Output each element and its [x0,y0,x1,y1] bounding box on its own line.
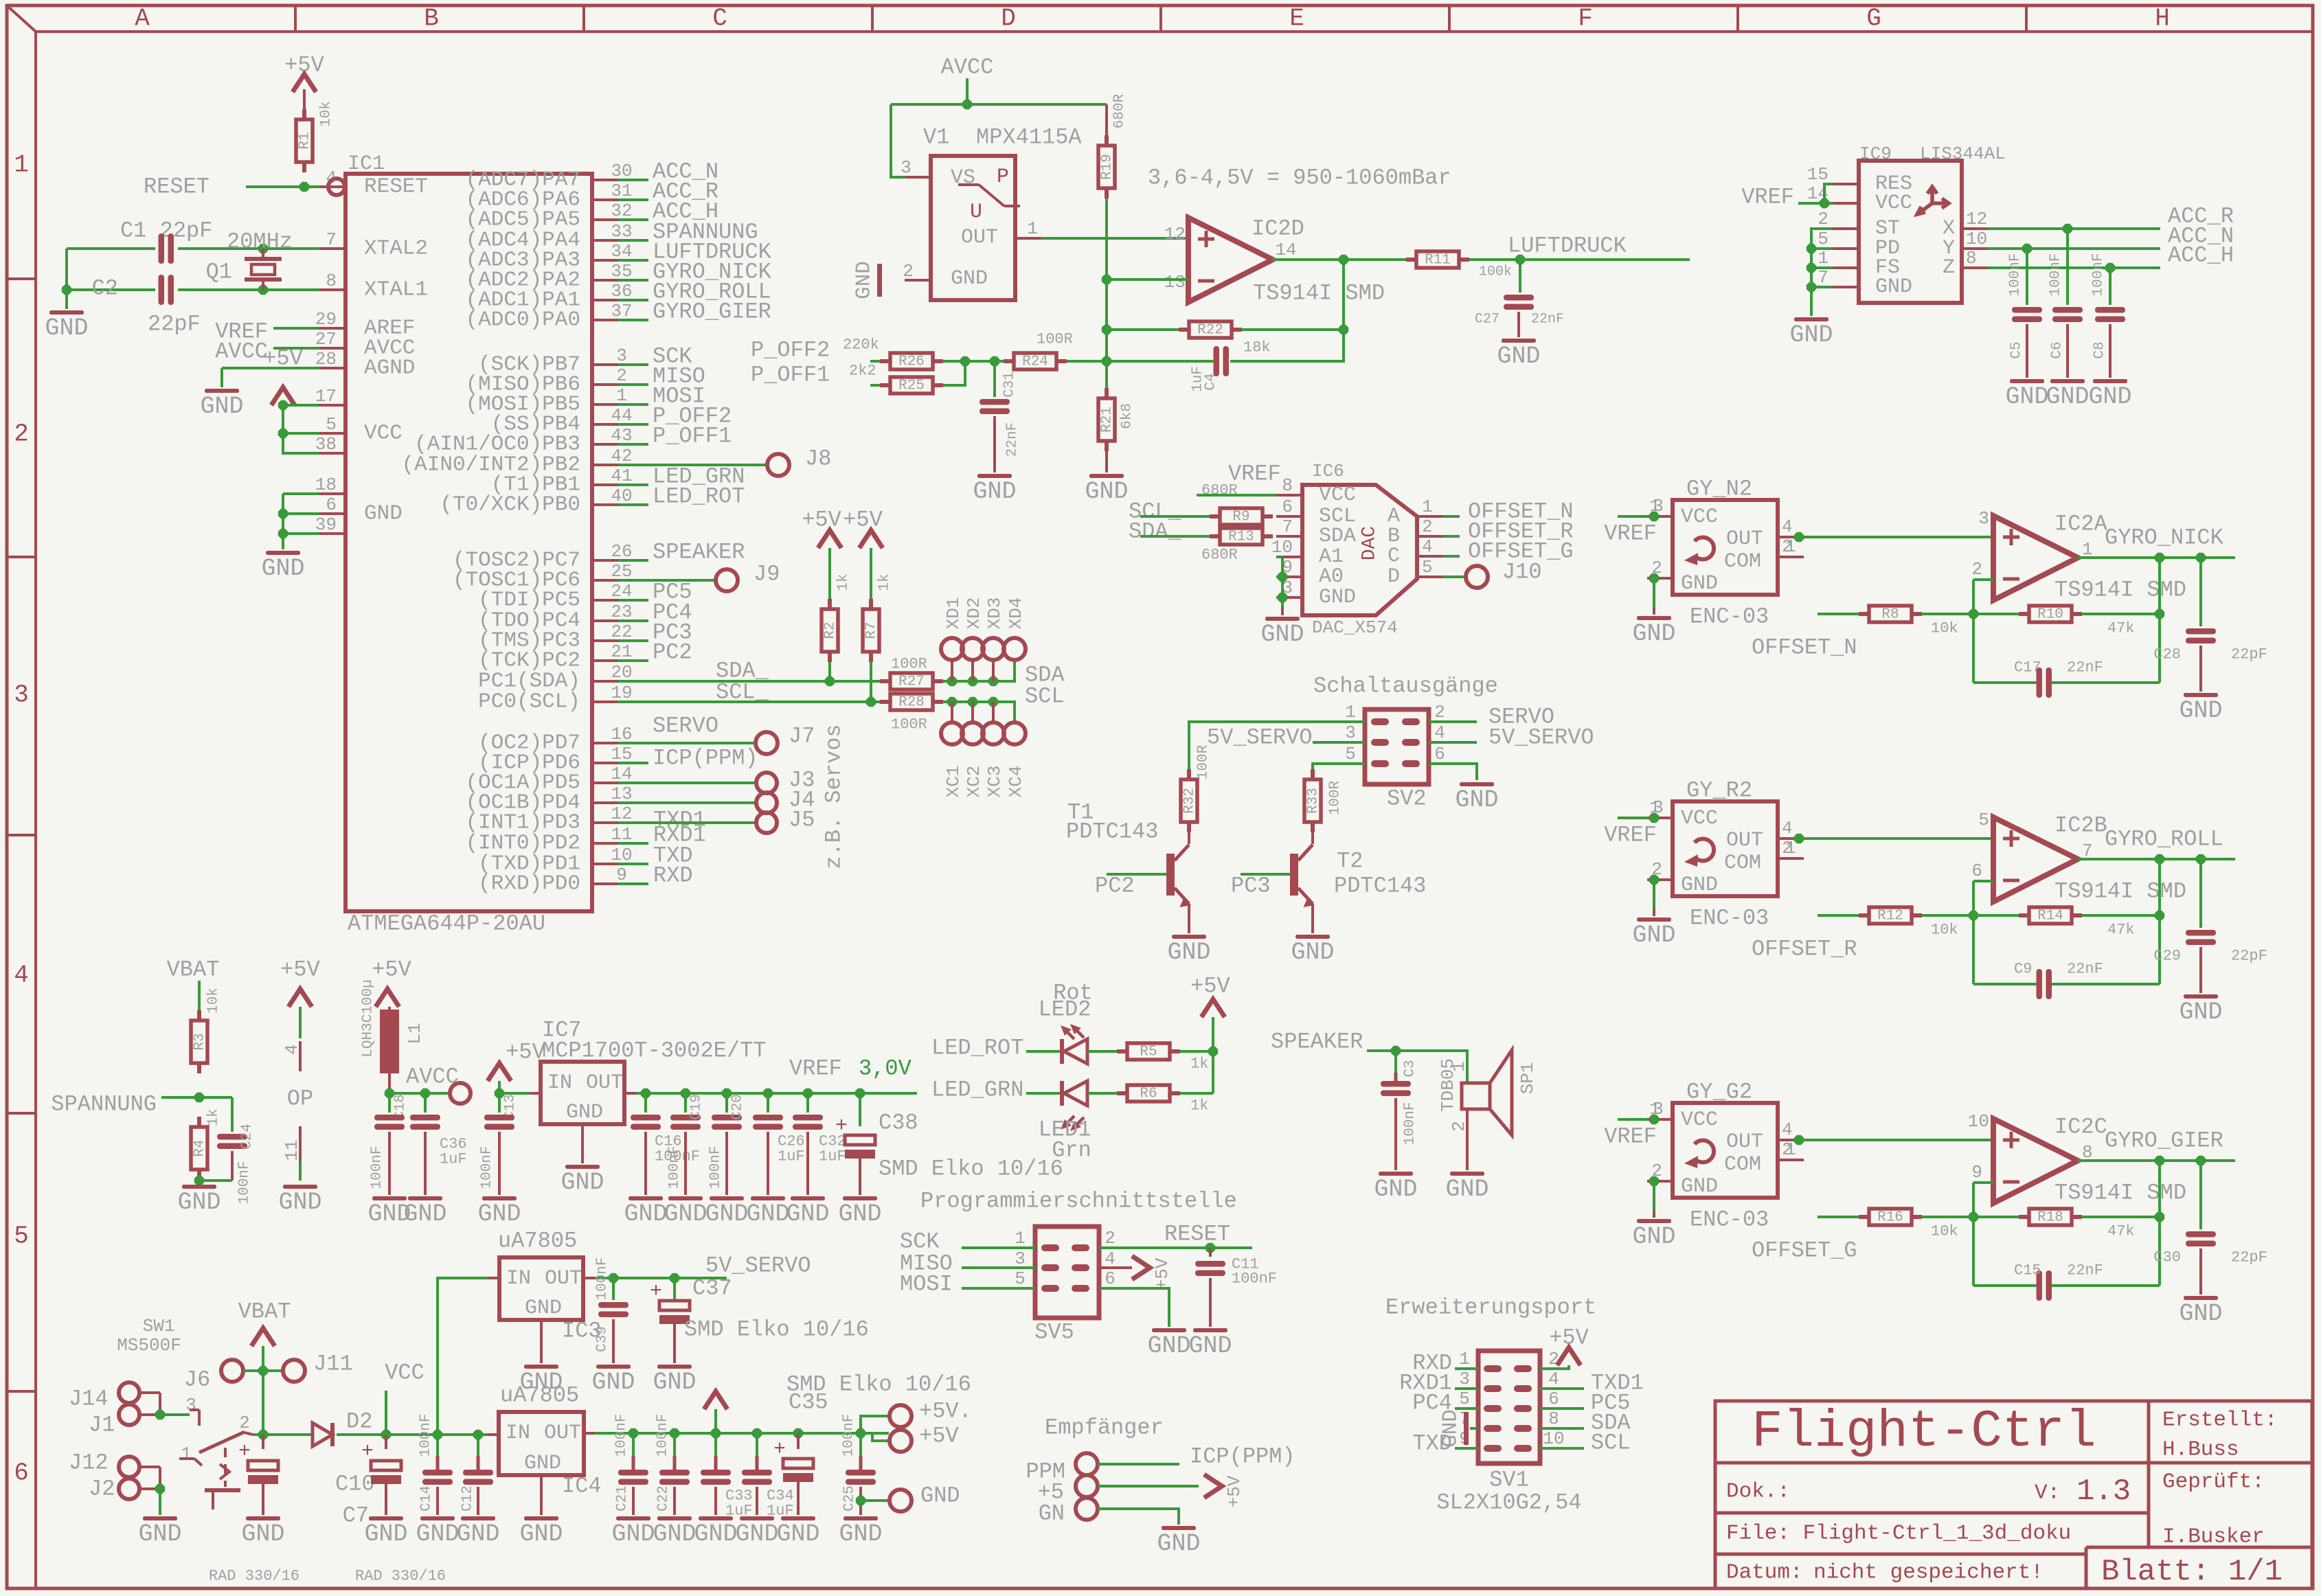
ground below T1 [1172,935,1206,939]
svg-text:1: 1 [1027,218,1038,239]
junction SDA dots [947,676,957,686]
svg-text:Grn: Grn [1052,1138,1091,1163]
svg-text:IC2D: IC2D [1252,216,1304,242]
svg-text:100R: 100R [891,656,927,673]
svg-text:10: 10 [1543,1428,1564,1449]
wire SV5 pin6 to ground [1099,1288,1169,1327]
svg-text:4: 4 [1548,1369,1559,1389]
svg-text:C: C [712,5,727,33]
connector pad AVCC [450,1083,471,1104]
ground below C13 [482,1196,517,1200]
resistor R2 1k [828,599,832,609]
connector SV5 box [1035,1227,1099,1318]
ic IC6 pin stubs and numbers [1271,475,1443,598]
wire IC3 OUT 5V_SERVO rail [583,1277,595,1279]
ground below C28 [2184,693,2218,697]
svg-text:J2: J2 [89,1477,115,1502]
svg-text:AGND: AGND [364,356,415,380]
svg-text:10k: 10k [1931,1223,1958,1240]
svg-text:TS914I SMD: TS914I SMD [1253,281,1385,306]
svg-text:GND: GND [138,1520,181,1548]
svg-text:11: 11 [282,1139,302,1161]
wire VBAT down to switch node [262,1371,264,1435]
frame row ticks [7,277,36,280]
svg-text:44: 44 [611,405,632,426]
wire OFFSET_G into R16 [1818,1216,1859,1218]
connector SV2 box [1365,709,1429,784]
junction VCC dots [278,400,288,410]
capacitor C36 1uF [424,1093,427,1113]
svg-text:1: 1 [14,151,29,179]
svg-text:C25: C25 [842,1485,858,1512]
svg-text:R4: R4 [192,1139,208,1156]
svg-text:VREF: VREF [1604,1124,1657,1150]
capacitor C19 100nF [684,1093,687,1113]
ground below C38 [843,1196,877,1200]
svg-text:R6: R6 [1140,1086,1157,1102]
svg-text:4: 4 [1782,1119,1793,1140]
svg-text:R32: R32 [1182,788,1198,814]
ground below GY_R2 [1637,917,1671,922]
svg-text:6: 6 [1105,1268,1116,1289]
svg-text:Schaltausgänge: Schaltausgänge [1313,674,1498,699]
svg-text:22pF: 22pF [2231,646,2267,663]
svg-text:2: 2 [616,365,627,386]
svg-text:L1: L1 [405,1023,425,1044]
power +5V arrow at VCC pins [271,387,295,405]
svg-text:LED_ROT: LED_ROT [653,484,745,510]
wire D2 to IC4 IN (VCC node) [337,1433,488,1436]
svg-text:GND: GND [477,1200,521,1228]
svg-text:GND: GND [1260,621,1304,648]
svg-text:10k: 10k [1931,922,1958,939]
svg-text:GYRO_NICK: GYRO_NICK [2105,525,2224,551]
svg-text:8: 8 [1966,248,1977,269]
svg-text:100nF: 100nF [655,1413,671,1457]
svg-text:D2: D2 [346,1409,372,1435]
svg-text:OFFSET_N: OFFSET_N [1752,635,1857,661]
svg-text:OUT: OUT [1726,527,1763,551]
junction feedback IC2A [2155,609,2164,619]
wire minus input vertical IC2C [1973,1181,1993,1184]
svg-text:C27: C27 [1475,312,1499,328]
svg-text:R26: R26 [898,354,925,370]
svg-text:VCC: VCC [385,1360,424,1386]
svg-text:GND: GND [2179,999,2222,1026]
svg-text:C15: C15 [2014,1262,2041,1279]
svg-text:SERVO: SERVO [653,714,718,739]
wire PC5 PC4 PC3 PC2 nets [618,580,692,665]
svg-text:MS500F: MS500F [117,1335,181,1356]
wire SV5 pin2 RESET [1099,1246,1252,1249]
svg-text:PC0(SCL): PC0(SCL) [478,690,580,714]
svg-text:C30: C30 [2153,1249,2181,1266]
wire GY_N2 OUT to op-amp plus input [1804,536,1993,538]
svg-text:R33: R33 [1306,788,1322,814]
junction GYRO_GIER dots [2155,1156,2164,1165]
svg-text:9: 9 [616,865,627,885]
ground below IC9 [1794,317,1829,321]
junction GND dots [278,509,288,518]
ic IC1 left pin stubs and numbers [315,168,428,535]
svg-text:GND: GND [1497,343,1540,370]
svg-text:GND: GND [519,1520,563,1548]
svg-text:12: 12 [1966,209,1987,229]
svg-text:5: 5 [1015,1268,1026,1289]
svg-text:SV1: SV1 [1489,1468,1529,1493]
svg-text:C8: C8 [2092,341,2108,358]
pin 1 OUT stub of V1 [1015,237,1041,240]
svg-text:RAD 330/16: RAD 330/16 [355,1568,446,1585]
ground below C33 [699,1516,733,1520]
svg-text:VREF: VREF [1604,521,1657,547]
svg-text:SCL: SCL [1025,684,1065,709]
svg-text:Datum:: Datum: [1726,1561,1803,1585]
svg-text:RESET: RESET [144,174,210,200]
svg-text:GND: GND [1188,1332,1232,1360]
capacitor C15 22nF feedback [1973,1284,2037,1287]
svg-text:IC4: IC4 [562,1474,602,1499]
ground below C27 [1502,339,1536,343]
svg-text:Programmierschnittstelle: Programmierschnittstelle [920,1189,1237,1214]
svg-text:VCC: VCC [1681,505,1718,529]
svg-text:4: 4 [1422,536,1433,557]
svg-text:3: 3 [901,157,912,178]
wire LED_GRN LED_ROT nets [618,483,648,486]
svg-text:17: 17 [315,386,337,407]
svg-text:Dok.:: Dok.: [1726,1480,1790,1504]
capacitor C18 100nF [388,1093,391,1113]
svg-text:5: 5 [1422,557,1433,578]
wire minus input IC2D [1107,278,1188,281]
svg-text:SDA_: SDA_ [1129,519,1182,545]
ground below C39 [596,1365,631,1369]
wire R10 to feedback vertical [2082,613,2160,615]
svg-text:100nF: 100nF [2048,253,2064,296]
svg-text:GND: GND [364,502,403,526]
svg-text:3: 3 [14,681,29,709]
svg-text:C20: C20 [730,1094,746,1120]
wire PPM to ICP(PPM) [1098,1463,1179,1466]
wire SV1 pin10 SCL [1540,1447,1584,1450]
svg-text:J11: J11 [313,1352,353,1377]
svg-text:J5: J5 [789,808,815,833]
svg-text:GND: GND [456,1520,499,1548]
capacitor C10 RAD330/16 [262,1435,264,1449]
svg-text:ENC-03: ENC-03 [1690,604,1769,630]
wire GY_N2 GND pin to ground [1653,578,1655,607]
svg-text:2: 2 [1818,209,1829,229]
wire SV5 pin4 +5V arrow [1099,1266,1132,1269]
wire net pin42 to J8 [618,464,767,466]
svg-text:GND: GND [1374,1176,1417,1203]
svg-text:R9: R9 [1232,510,1249,525]
svg-text:30: 30 [611,161,632,181]
ground below C32 [791,1196,825,1200]
svg-text:U: U [970,201,982,224]
svg-text:3: 3 [1459,1369,1470,1389]
svg-text:AVCC: AVCC [215,339,268,365]
wire V1 OUT to opamp plus [1041,237,1188,240]
wire ACC_H from Z [1988,266,2160,269]
svg-text:1: 1 [616,385,627,406]
svg-text:H.Buss: H.Buss [2162,1438,2239,1462]
capacitor C29 22pF [2199,859,2202,928]
resistor R22 18k feedback [1179,328,1189,332]
svg-text:uA7805: uA7805 [498,1229,577,1254]
svg-text:GND: GND [1681,874,1718,897]
junction LUFTDRUCK/C27 [1515,255,1525,264]
svg-text:XC2: XC2 [964,766,984,798]
svg-text:SPEAKER: SPEAKER [653,540,745,565]
svg-text:6k8: 6k8 [1120,403,1135,429]
svg-text:IC2C: IC2C [2054,1115,2107,1140]
svg-text:3,0V: 3,0V [859,1056,912,1082]
svg-text:ENC-03: ENC-03 [1690,906,1769,931]
svg-text:22pF: 22pF [2231,948,2267,965]
wire IC3 GND to ground [540,1320,543,1363]
svg-text:1: 1 [1459,1349,1470,1369]
svg-text:ICP(PPM): ICP(PPM) [653,746,758,771]
svg-text:100R: 100R [1328,780,1344,815]
svg-text:I.Busker: I.Busker [2162,1525,2265,1549]
ground below C31 [977,474,1012,478]
svg-text:GND: GND [951,267,988,290]
ground below C35 [781,1516,815,1520]
svg-text:1: 1 [1015,1228,1026,1249]
ic IC1 right pin stubs, numbers and names [402,161,633,896]
wire SV1 pin8 SDA [1540,1427,1584,1430]
svg-text:12: 12 [611,803,632,824]
svg-text:TXD: TXD [1412,1431,1452,1457]
svg-text:22nF: 22nF [2067,1262,2103,1279]
ground below IC7 [565,1165,600,1169]
svg-text:C29: C29 [2153,948,2181,965]
svg-text:SL2X10G2,54: SL2X10G2,54 [1436,1490,1581,1516]
resistor R13 680R [1210,534,1220,538]
svg-text:Erweiterungsport: Erweiterungsport [1385,1295,1596,1321]
svg-text:C22: C22 [656,1485,672,1512]
capacitor C28 22pF [2199,558,2202,626]
svg-text:22nF: 22nF [2067,659,2103,676]
svg-text:14: 14 [1275,240,1296,260]
junction RESET/R1 [299,182,309,192]
ground below C25 [844,1516,878,1520]
svg-text:GND: GND [561,1169,604,1196]
svg-text:R18: R18 [2037,1210,2063,1226]
svg-text:27: 27 [315,329,337,350]
junction RESET/C11 [1205,1243,1215,1253]
svg-text:5: 5 [1818,229,1829,249]
svg-text:100R: 100R [891,716,927,733]
wire SV2 pin6 to ground [1429,764,1477,780]
wire GY_G2 GND pin to ground [1653,1181,1655,1210]
svg-text:7: 7 [326,229,337,250]
svg-text:SPANNUNG: SPANNUNG [51,1092,157,1117]
svg-text:22nF: 22nF [1531,312,1564,328]
junction feedback IC2B [2155,911,2164,920]
svg-text:A: A [135,5,150,33]
svg-text:SV2: SV2 [1387,786,1427,812]
capacitor C27 22nF [1519,260,1521,293]
ground below IC4 [524,1516,558,1520]
svg-text:VREF: VREF [1604,823,1657,848]
wire R2 to SDA node [828,662,831,681]
wire C4 to minus node [1107,360,1214,363]
led LED1 green [1060,1081,1064,1106]
wire AVCC rail [966,78,969,104]
svg-text:COM: COM [1724,1153,1761,1176]
svg-text:GND: GND [524,1452,561,1475]
junction J12/J2 [155,1484,165,1494]
ground below R21 [1089,474,1124,478]
svg-text:MCP1700T-3002E/TT: MCP1700T-3002E/TT [542,1038,766,1064]
svg-text:5: 5 [1978,810,1989,830]
wire VBAT to R3 [198,981,201,1012]
wire SV1 pin6 PC5 [1540,1407,1584,1410]
ground at SV2 pin6 [1460,782,1494,786]
svg-text:47k: 47k [2107,1223,2135,1240]
ground below C10 [246,1516,280,1520]
wire +5 pin to +5V arrow [1098,1485,1199,1487]
svg-text:C12: C12 [460,1485,476,1512]
wire IC7 GND pin to ground [581,1124,584,1163]
svg-text:40: 40 [611,486,632,506]
svg-text:C24: C24 [240,1124,256,1150]
svg-text:D: D [1388,565,1400,589]
svg-text:IN: IN [506,1422,530,1445]
ground below GY_N2 [1637,616,1671,620]
capacitor C32 1uF [806,1093,809,1113]
capacitor C22 100nF on +5V rail [673,1433,676,1456]
wire IC4 OUT +5V rail [584,1432,595,1435]
power arrow VBAT [251,1328,275,1346]
svg-text:H: H [2155,5,2170,33]
svg-text:35: 35 [611,261,632,282]
svg-text:TS914I SMD: TS914I SMD [2054,879,2186,904]
svg-text:LQH3C100µ: LQH3C100µ [361,979,376,1057]
wire IC2C output GYRO_GIER [2078,1159,2235,1162]
capacitor C14 100nF [436,1435,439,1456]
wire SV1 pin4 TXD1 [1540,1387,1584,1390]
capacitor C12 100nF [477,1435,479,1456]
svg-text:GYRO_ROLL: GYRO_ROLL [2105,827,2223,852]
capacitor C3 100nF [1394,1051,1397,1073]
svg-text:C5: C5 [2009,341,2025,358]
svg-text:1.3: 1.3 [2076,1474,2131,1509]
svg-text:1k: 1k [836,573,852,591]
junction R4/C24 ground node [194,1176,204,1185]
wire XTAL1 net [67,288,155,291]
connector J8 [767,454,789,476]
wire ICP(PPM) net pin15 [618,762,648,764]
svg-text:AVCC: AVCC [941,55,994,80]
svg-text:GND: GND [241,1520,284,1548]
junction XTAL1/Q1 [258,285,268,295]
svg-text:IC2A: IC2A [2054,512,2108,537]
wire SV2 pin2 SERVO [1429,720,1477,723]
svg-text:680R: 680R [1112,93,1128,128]
capacitor C33 1uF [714,1433,717,1456]
svg-text:XC1: XC1 [943,766,964,798]
junction J14/J1 [155,1410,165,1420]
junction LED pullup [1208,1047,1218,1056]
svg-text:+5V: +5V [1190,974,1230,999]
junction C25 gnd pad tap [856,1496,865,1505]
wire R24 to minus vertical [1067,360,1214,363]
svg-text:1: 1 [1449,1061,1469,1072]
svg-text:39: 39 [315,514,337,535]
svg-text:PDTC143: PDTC143 [1066,819,1158,845]
svg-text:22pF: 22pF [2231,1249,2267,1266]
svg-text:13: 13 [1164,272,1186,293]
svg-text:GND: GND [364,1520,407,1548]
svg-text:GND: GND [776,1520,819,1548]
svg-text:22pF: 22pF [148,312,201,337]
svg-text:+5V: +5V [372,957,411,983]
ground at V1 pin2 (rotated) [877,264,882,297]
svg-text:SP1: SP1 [1517,1062,1538,1095]
svg-text:VCC: VCC [1875,192,1912,215]
title block frame [1715,1401,2312,1588]
svg-text:PC2: PC2 [653,640,692,665]
svg-text:J1: J1 [89,1413,115,1438]
svg-text:9: 9 [1971,1162,1982,1183]
wire pin13 to J4 [618,801,756,804]
wire R22 feedback net [1107,328,1179,331]
svg-text:GND: GND [1455,786,1498,814]
connector pads XC1-XC4 [941,702,1026,797]
svg-text:OUT: OUT [1726,829,1763,852]
svg-text:6: 6 [1548,1389,1559,1409]
ground below C19 [668,1196,703,1200]
svg-text:Z: Z [1943,256,1955,280]
wire SCL bus to XC pads [943,702,1015,723]
svg-text:GN: GN [1039,1501,1065,1527]
svg-text:R13: R13 [1228,529,1254,545]
svg-text:SDA: SDA [1319,525,1356,548]
svg-text:1: 1 [1785,1139,1796,1160]
svg-text:GND: GND [1147,1332,1190,1360]
ground below IC3 [524,1365,558,1369]
junction minus node R19 [1102,275,1111,284]
wire SPEAKER to SP1 [1367,1051,1467,1083]
svg-text:47k: 47k [2107,922,2135,939]
svg-text:10k: 10k [319,101,335,127]
svg-text:6: 6 [326,494,337,515]
junction ACC_N/C5 [2022,244,2032,253]
svg-text:6: 6 [1971,860,1982,881]
capacitor C24 100nF [231,1097,234,1132]
junction R7/SCL [866,697,876,707]
svg-text:IN: IN [547,1071,572,1095]
ground below C1 C2 [49,310,84,315]
svg-text:R19: R19 [1100,154,1116,180]
resistor R11 100k [1406,258,1416,262]
svg-text:IN: IN [506,1267,531,1290]
resistor R8 10k [1859,612,1869,616]
ic IC9 pin stubs and numbers [1807,164,1988,288]
svg-text:1: 1 [1818,248,1829,269]
junction AVCC [962,100,972,109]
svg-text:14: 14 [611,764,632,784]
wire into IC3 IN from VCC rail riser [438,1278,488,1433]
svg-text:MOSI: MOSI [900,1272,953,1297]
svg-text:TS914I SMD: TS914I SMD [2054,578,2186,603]
svg-text:C6: C6 [2050,341,2065,358]
wire SV2 pin5 down to R33 [1313,764,1365,770]
svg-text:43: 43 [611,425,632,446]
